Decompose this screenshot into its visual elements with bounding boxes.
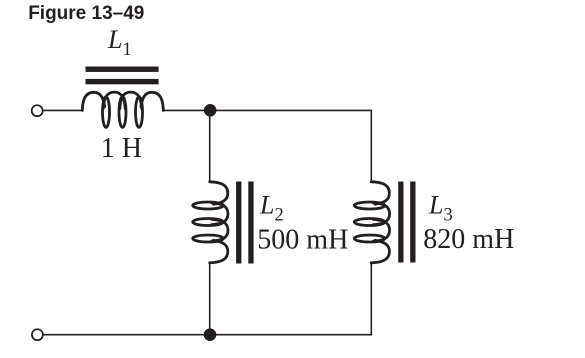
wire: L2 bottom down to bottom rail [209,262,211,334]
svg-text:L3: L3 [428,191,453,226]
terminal (bottom left, open circle) [32,329,43,340]
wire: L3 bottom down to bottom rail [370,262,372,335]
svg-text:L2: L2 [259,191,284,226]
wire: bottom rail [44,334,372,336]
inductor L3 coil [371,182,389,263]
svg-text:500 mH: 500 mH [257,225,348,256]
svg-text:Figure 13–49: Figure 13–49 [28,3,144,24]
inductor L2 iron core bars [236,182,241,264]
inductor L1 iron core bars [86,67,159,72]
wire: node A down to L2 top [209,110,211,182]
svg-text:1 H: 1 H [101,133,142,164]
wire: L1 to top-right corner [163,109,371,111]
wire: top-left terminal to L1 [43,109,83,111]
svg-text:820 mH: 820 mH [423,224,514,255]
svg-text:L1: L1 [107,25,132,60]
inductor L2 coil [210,182,228,263]
node B (junction dot, bottom) [204,328,217,341]
wire: top-right corner down to L3 top [370,110,372,183]
node A (junction dot, top) [204,104,217,117]
inductor L1 coil [82,92,163,110]
inductor L3 iron core bars [398,182,403,263]
terminal (top left, open circle) [32,105,43,116]
